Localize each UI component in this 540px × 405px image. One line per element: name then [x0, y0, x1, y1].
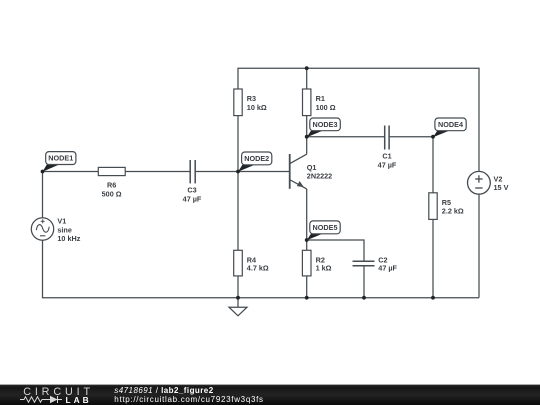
wire R4 top — [237, 172, 239, 251]
svg-text:47 µF: 47 µF — [183, 194, 202, 203]
svg-text:500 Ω: 500 Ω — [102, 190, 122, 199]
capacitor C2 — [353, 255, 398, 272]
svg-text:47 µF: 47 µF — [378, 264, 397, 273]
resistor R2 — [302, 250, 331, 276]
node label NODE3 — [307, 118, 341, 137]
resistor R6 — [98, 167, 125, 198]
svg-text:NODE3: NODE3 — [313, 120, 338, 129]
node dot R2 bottom — [305, 296, 309, 300]
wire R6 to C3 — [125, 171, 189, 173]
wire collector node to C1 — [307, 136, 385, 138]
wire R1 bottom to collector node — [306, 116, 308, 155]
svg-text:100 Ω: 100 Ω — [316, 103, 336, 112]
wire bottom rail — [43, 240, 480, 298]
node dot R5 bottom — [431, 296, 435, 300]
wire emitter node to C2 branch — [307, 240, 364, 261]
svg-text:2N2222: 2N2222 — [307, 172, 332, 181]
svg-text:R6: R6 — [107, 181, 116, 190]
svg-text:LAB: LAB — [66, 395, 92, 405]
wire left input vertical — [42, 172, 44, 218]
svg-text:15 V: 15 V — [494, 183, 509, 192]
capacitor C3 — [183, 160, 202, 203]
svg-text:s4718691 / lab2_figure2: s4718691 / lab2_figure2 — [114, 386, 213, 395]
wire R5 bottom — [432, 219, 434, 297]
node dot NODE4 — [431, 135, 435, 139]
svg-text:http://circuitlab.com/cu7923fw: http://circuitlab.com/cu7923fw3q3fs — [114, 395, 263, 404]
resistor R3 — [234, 89, 267, 116]
wire V2 bottom — [478, 194, 480, 298]
node label NODE1 — [43, 152, 76, 172]
svg-text:V1: V1 — [57, 217, 66, 226]
wire R1 top — [306, 68, 308, 89]
node dot NODE1 — [41, 170, 45, 174]
wire top rail horizontal — [238, 68, 479, 171]
wire base — [238, 171, 290, 173]
node dot R1 top — [305, 66, 309, 70]
svg-text:NODE5: NODE5 — [313, 223, 338, 232]
node label NODE5 — [307, 221, 340, 240]
wire C2 bottom — [363, 266, 365, 298]
svg-text:NODE4: NODE4 — [438, 120, 463, 129]
wire R4 bottom — [237, 276, 239, 298]
wire C1 to NODE4 — [390, 136, 433, 138]
node dot NODE5 — [305, 238, 309, 242]
transistor Q1 — [290, 154, 333, 189]
node dot C2 bottom — [362, 296, 366, 300]
ground — [229, 298, 247, 316]
footer bar — [0, 385, 540, 405]
wire NODE1 to R6 — [43, 171, 99, 173]
svg-text:C3: C3 — [187, 186, 196, 195]
resistor R5 — [429, 193, 464, 220]
capacitor C1 — [378, 126, 397, 170]
wire emitter node down to R2 — [306, 189, 308, 250]
svg-text:47 µF: 47 µF — [378, 160, 397, 169]
node dot NODE3 — [305, 135, 309, 139]
wire NODE4 to R5 — [432, 137, 434, 193]
wire R2 bottom — [306, 276, 308, 298]
node label NODE4 — [433, 118, 466, 137]
svg-text:10 kΩ: 10 kΩ — [247, 103, 267, 112]
node dot R4 bottom — [236, 296, 240, 300]
svg-text:4.7 kΩ: 4.7 kΩ — [247, 264, 269, 273]
svg-text:C1: C1 — [382, 152, 391, 161]
wire C3 to NODE2 — [196, 171, 238, 173]
resistor R4 — [234, 250, 269, 276]
svg-text:NODE2: NODE2 — [244, 154, 269, 163]
node dot NODE2 — [236, 170, 240, 174]
resistor R1 — [303, 89, 336, 116]
logo resistor zigzag and diode — [20, 396, 62, 403]
svg-text:1 kΩ: 1 kΩ — [316, 264, 332, 273]
voltage source V1 — [31, 217, 80, 243]
node label NODE2 — [238, 152, 272, 172]
svg-text:10 kHz: 10 kHz — [57, 234, 80, 243]
voltage source V2 — [468, 171, 509, 194]
wire top rail — [237, 116, 239, 172]
svg-text:NODE1: NODE1 — [48, 154, 73, 163]
svg-text:2.2 kΩ: 2.2 kΩ — [442, 206, 464, 215]
